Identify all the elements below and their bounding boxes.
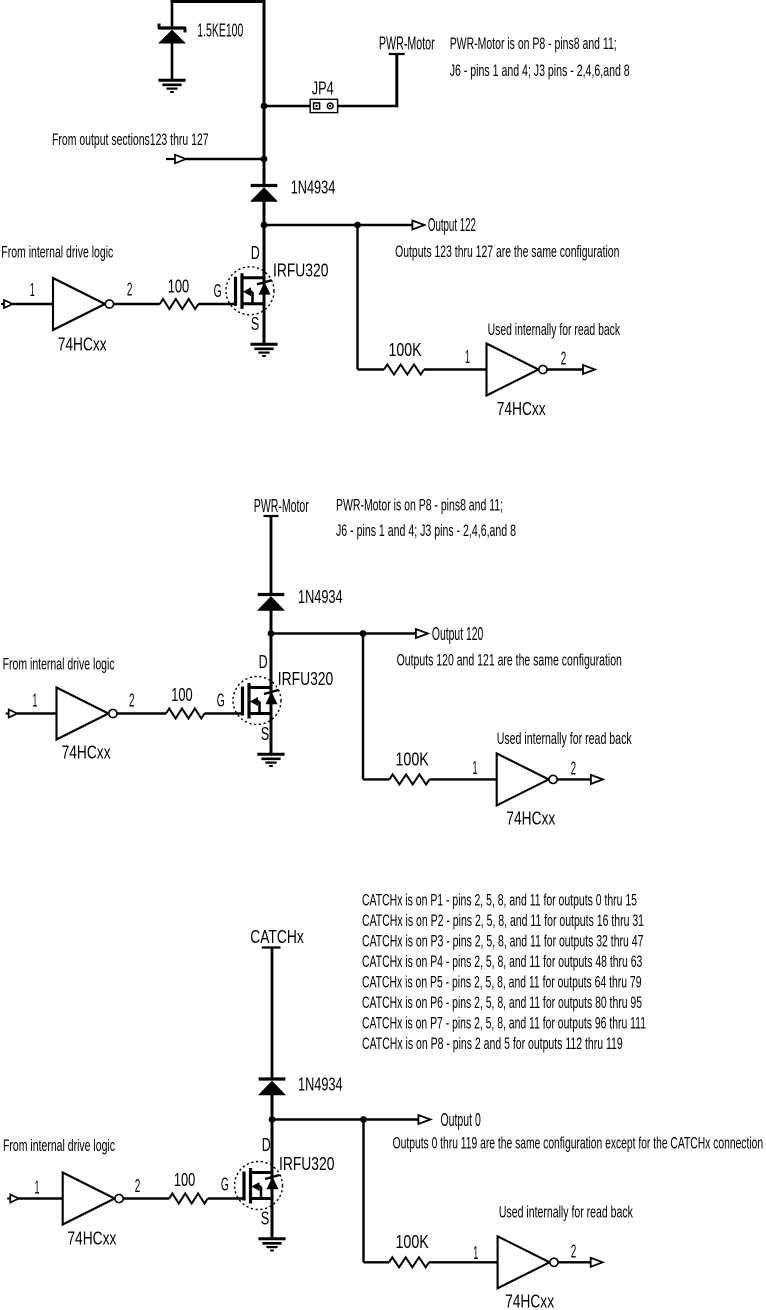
- resistor R? 100 section 1: [160, 299, 199, 309]
- arrow from output sections: [166, 158, 174, 160]
- resistor R? 100K section 2: [389, 774, 429, 784]
- node junction from-output row: [261, 156, 268, 163]
- wire buffer to resistor section 1: [114, 303, 160, 305]
- wire readback row to resistor section 1: [358, 368, 385, 370]
- buffer U? 74HCxx readback section 1: [487, 344, 539, 396]
- svg-text:2: 2: [127, 279, 132, 300]
- svg-text:Outputs 120 and 121 are the sa: Outputs 120 and 121 are the same configu…: [397, 652, 622, 670]
- svg-text:CATCHx is on P5 - pins 2, 5, 8: CATCHx is on P5 - pins 2, 5, 8, and 11 f…: [362, 974, 642, 992]
- arrow readback output section 3: [591, 1258, 603, 1267]
- resistor R? 100 section 3: [169, 1194, 208, 1204]
- svg-text:1.5KE100: 1.5KE100: [197, 20, 243, 41]
- svg-text:IRFU320: IRFU320: [278, 668, 333, 689]
- svg-text:PWR-Motor: PWR-Motor: [254, 495, 309, 516]
- wire junction to JP4: [264, 105, 310, 107]
- jumper JP4: [310, 99, 337, 112]
- svg-text:100: 100: [171, 684, 192, 705]
- resistor R? 100K section 1: [384, 365, 424, 375]
- diode D? 1N4934 section 2: [258, 593, 285, 596]
- svg-text:From output sections123 thru 1: From output sections123 thru 127: [52, 131, 209, 149]
- arrow readback output section 1: [583, 365, 595, 374]
- wire input to buffer section 3: [19, 1197, 63, 1199]
- wire TVS anode to ground: [171, 44, 174, 81]
- wire output row section 2: [271, 632, 417, 634]
- wire readback row to resistor section 2: [363, 778, 389, 780]
- buffer U? 74HCxx readback section 3: [498, 1236, 550, 1288]
- svg-text:Outputs 123 thru 127 are the s: Outputs 123 thru 127 are the same config…: [395, 243, 619, 261]
- resistor R? 100K section 3: [389, 1257, 429, 1267]
- svg-text:CATCHx is on P7 - pins 2, 5, 8: CATCHx is on P7 - pins 2, 5, 8, and 11 f…: [362, 1015, 646, 1033]
- buffer U? 74HCxx input section 2: [57, 688, 109, 740]
- node readback tap section 2: [360, 630, 367, 637]
- svg-text:CATCHx is on P4 - pins 2, 5, 8: CATCHx is on P4 - pins 2, 5, 8, and 11 f…: [362, 953, 642, 971]
- input arrow section 3: [7, 1197, 11, 1199]
- svg-text:1N4934: 1N4934: [291, 177, 336, 198]
- wire readback buffer output section 2: [557, 778, 591, 780]
- node junction JP4 row: [261, 103, 268, 110]
- node drain junction section 1: [261, 222, 268, 229]
- svg-text:1: 1: [30, 279, 35, 300]
- wire TVS vertical drop: [171, 0, 174, 27]
- wire output row section 3: [272, 1118, 419, 1120]
- node readback tap section 1: [354, 222, 361, 229]
- wire readback drop section 1: [356, 225, 358, 370]
- svg-text:S: S: [251, 313, 259, 334]
- wire resistor to gate section 2: [205, 712, 243, 714]
- buffer U? 74HCxx input section 3: [63, 1173, 115, 1225]
- ground below TVS: [158, 79, 185, 82]
- svg-text:S: S: [261, 1208, 270, 1229]
- wire buffer to resistor section 2: [117, 712, 166, 714]
- svg-text:D: D: [251, 242, 260, 263]
- svg-text:1: 1: [473, 757, 478, 778]
- node readback tap section 3: [360, 1116, 367, 1123]
- svg-text:PWR-Motor is on P8 - pins8 and: PWR-Motor is on P8 - pins8 and 11;: [336, 496, 503, 514]
- wire main vertical lower section 2: [270, 610, 273, 755]
- svg-text:CATCHx is on P1 - pins 2, 5, 8: CATCHx is on P1 - pins 2, 5, 8, and 11 f…: [362, 892, 637, 910]
- svg-text:D: D: [259, 651, 268, 672]
- wire main vertical lower section 3: [271, 1095, 274, 1240]
- svg-text:74HCxx: 74HCxx: [506, 807, 556, 828]
- TVS diode D? 1.5KE100: [158, 26, 186, 29]
- svg-text:Used internally for read back: Used internally for read back: [488, 321, 621, 339]
- svg-text:CATCHx is on P8 - pins 2 and 5: CATCHx is on P8 - pins 2 and 5 for outpu…: [362, 1035, 623, 1053]
- arrow Output 120: [416, 629, 428, 638]
- transistor Q? IRFU320 section 3: [235, 1162, 283, 1210]
- wire CATCHx vertical: [271, 948, 274, 1080]
- svg-text:CATCHx is on P3 - pins 2, 5, 8: CATCHx is on P3 - pins 2, 5, 8, and 11 f…: [362, 933, 643, 951]
- transistor Q? IRFU320 section 2: [233, 677, 281, 725]
- svg-text:2: 2: [571, 758, 577, 779]
- wire top horizontal from TVS to main net: [171, 0, 266, 3]
- svg-text:G: G: [214, 280, 222, 301]
- svg-text:Used internally for read back: Used internally for read back: [499, 1204, 633, 1222]
- svg-text:2: 2: [561, 348, 567, 369]
- diode D? 1N4934 section 1: [251, 184, 278, 187]
- wire PWR-Motor vertical section 2: [270, 516, 273, 595]
- svg-text:From internal drive logic: From internal drive logic: [3, 656, 115, 674]
- svg-text:74HCxx: 74HCxx: [62, 742, 112, 763]
- svg-text:Outputs 0 thru 119 are the sam: Outputs 0 thru 119 are the same configur…: [393, 1135, 763, 1153]
- ground below MOSFET section 3: [258, 1237, 285, 1240]
- svg-text:74HCxx: 74HCxx: [497, 398, 547, 419]
- wire resistor to gate section 3: [208, 1197, 244, 1199]
- svg-text:Output 0: Output 0: [441, 1109, 481, 1130]
- wire readback drop section 2: [362, 634, 364, 780]
- wire readback buffer output section 1: [547, 368, 583, 370]
- arrow readback output section 2: [591, 775, 603, 784]
- svg-text:100K: 100K: [396, 1231, 430, 1252]
- svg-text:100: 100: [168, 275, 189, 296]
- svg-text:IRFU320: IRFU320: [279, 1153, 334, 1174]
- svg-text:CATCHx: CATCHx: [250, 926, 304, 947]
- node drain junction section 2: [268, 630, 275, 637]
- buffer U? 74HCxx input section 1: [53, 278, 105, 330]
- wire input to buffer section 1: [13, 303, 54, 305]
- svg-text:G: G: [217, 690, 225, 711]
- wire readback buffer output section 3: [558, 1261, 591, 1263]
- wire PWR-Motor vertical: [395, 55, 398, 108]
- svg-text:CATCHx is on P6 - pins 2, 5, 8: CATCHx is on P6 - pins 2, 5, 8, and 11 f…: [362, 994, 642, 1012]
- wire main vertical upper section 1: [263, 0, 266, 186]
- transistor Q? IRFU320 section 1: [226, 267, 274, 315]
- wire readback row to resistor section 3: [364, 1261, 390, 1263]
- diode D? 1N4934 section 3: [259, 1077, 286, 1080]
- svg-text:2: 2: [135, 1175, 141, 1196]
- input arrow section 1: [1, 303, 5, 305]
- svg-text:100K: 100K: [396, 749, 430, 770]
- svg-text:100: 100: [174, 1169, 195, 1190]
- wire 100K to readback buffer section 2: [429, 778, 496, 780]
- svg-text:JP4: JP4: [312, 78, 334, 99]
- svg-text:IRFU320: IRFU320: [273, 260, 328, 281]
- svg-text:From internal drive logic: From internal drive logic: [3, 1137, 115, 1155]
- wire from arrow to main net: [186, 158, 264, 160]
- svg-text:100K: 100K: [389, 339, 422, 360]
- svg-text:2: 2: [129, 690, 135, 711]
- svg-text:PWR-Motor is on P8 - pins8 and: PWR-Motor is on P8 - pins8 and 11;: [450, 35, 617, 53]
- svg-text:From internal drive logic: From internal drive logic: [1, 244, 113, 262]
- svg-text:D: D: [262, 1134, 271, 1155]
- wire 100K to readback buffer section 3: [429, 1261, 498, 1263]
- buffer U? 74HCxx readback section 2: [497, 753, 549, 805]
- ground below MOSFET section 1: [250, 343, 277, 346]
- svg-text:Output 122: Output 122: [428, 214, 476, 235]
- ground below MOSFET section 2: [257, 753, 284, 756]
- wire readback drop section 3: [362, 1120, 364, 1263]
- svg-text:1N4934: 1N4934: [298, 586, 343, 607]
- wire buffer to resistor section 3: [123, 1197, 169, 1199]
- svg-text:Used internally for read back: Used internally for read back: [497, 730, 632, 748]
- svg-text:PWR-Motor: PWR-Motor: [379, 33, 435, 54]
- svg-text:Output 120: Output 120: [432, 623, 483, 644]
- svg-text:1: 1: [32, 690, 37, 711]
- wire 100K to readback buffer section 1: [424, 368, 487, 370]
- wire input to buffer section 2: [17, 712, 56, 714]
- svg-text:1N4934: 1N4934: [298, 1074, 343, 1095]
- terminal bar CATCHx: [262, 946, 281, 948]
- wire resistor to gate section 1: [198, 303, 235, 305]
- resistor R? 100 section 2: [166, 709, 205, 719]
- terminal bar PWR-Motor: [389, 53, 405, 55]
- arrow Output 122: [412, 221, 424, 230]
- wire main vertical lower section 1: [263, 201, 266, 345]
- svg-text:1: 1: [35, 1177, 40, 1198]
- svg-text:J6 - pins 1 and 4; J3 pins -: J6 - pins 1 and 4; J3 pins - 2,4,6,and 8: [450, 62, 630, 80]
- svg-text:J6 - pins 1 and 4; J3 pins -: J6 - pins 1 and 4; J3 pins - 2,4,6,and 8: [336, 522, 516, 540]
- svg-text:S: S: [261, 723, 270, 744]
- svg-text:CATCHx is on P2 - pins 2, 5, 8: CATCHx is on P2 - pins 2, 5, 8, and 11 f…: [362, 912, 644, 930]
- wire output row section 1: [264, 224, 413, 226]
- node drain junction section 3: [269, 1116, 276, 1123]
- svg-text:74HCxx: 74HCxx: [58, 334, 108, 355]
- svg-text:G: G: [221, 1173, 229, 1194]
- svg-text:1: 1: [465, 346, 470, 367]
- svg-text:1: 1: [473, 1242, 478, 1263]
- svg-text:74HCxx: 74HCxx: [67, 1227, 117, 1248]
- svg-text:2: 2: [571, 1241, 577, 1262]
- wire JP4 to PWR-Motor corner: [338, 105, 399, 108]
- svg-text:74HCxx: 74HCxx: [505, 1291, 555, 1310]
- arrow Output 0: [418, 1115, 430, 1124]
- input arrow section 2: [6, 712, 10, 714]
- terminal bar PWR-Motor section 2: [264, 515, 279, 517]
